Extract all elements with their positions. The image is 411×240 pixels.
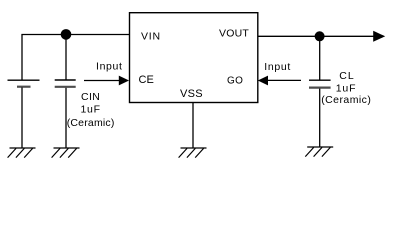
battery BT1 negative plate bbox=[17, 86, 31, 88]
ground (VSS) bbox=[179, 148, 207, 158]
svg-text:CL: CL bbox=[339, 70, 354, 82]
svg-text:VSS: VSS bbox=[180, 88, 203, 100]
svg-text:GO: GO bbox=[227, 76, 243, 87]
arrowhead output bbox=[373, 31, 385, 42]
svg-text:CE: CE bbox=[139, 74, 154, 86]
wire: CIN top lead bbox=[65, 35, 67, 80]
battery BT1 positive plate bbox=[8, 79, 40, 81]
capacitor CIN top plate bbox=[55, 79, 76, 81]
capacitor CL bottom plate bbox=[309, 86, 331, 88]
wire: CIN bottom lead bbox=[65, 88, 67, 148]
arrowhead into GO pin bbox=[258, 76, 268, 86]
wire: CE input line bbox=[84, 80, 120, 82]
wire: VOUT output net horizontal bbox=[258, 35, 375, 37]
wire: GO input line bbox=[267, 79, 301, 81]
node: VIN junction dot bbox=[61, 29, 72, 40]
wire: VSS lead bbox=[192, 103, 194, 149]
IC body U1 bbox=[130, 13, 258, 103]
wire: CL top lead bbox=[319, 36, 321, 80]
wire: CL bottom lead bbox=[319, 89, 321, 147]
wire: battery top lead vertical bbox=[21, 35, 23, 81]
node: VOUT junction dot bbox=[315, 31, 325, 41]
svg-text:Input: Input bbox=[264, 61, 291, 73]
svg-text:1uF: 1uF bbox=[336, 82, 357, 94]
wire: battery bottom lead bbox=[21, 88, 23, 149]
svg-text:Input: Input bbox=[96, 60, 123, 72]
svg-text:CIN: CIN bbox=[81, 91, 100, 103]
ground (CL) bbox=[305, 147, 333, 157]
arrowhead into CE pin bbox=[119, 76, 129, 86]
capacitor CL top plate bbox=[309, 79, 331, 81]
svg-text:1uF: 1uF bbox=[81, 103, 101, 115]
svg-text:(Ceramic): (Ceramic) bbox=[67, 117, 115, 129]
ground (CIN) bbox=[52, 148, 80, 158]
ground (battery) bbox=[8, 148, 36, 158]
svg-text:VOUT: VOUT bbox=[219, 27, 249, 39]
svg-text:VIN: VIN bbox=[141, 31, 161, 43]
wire: VIN input net horizontal bbox=[21, 34, 129, 36]
capacitor CIN bottom plate bbox=[55, 86, 76, 88]
svg-text:(Ceramic): (Ceramic) bbox=[321, 94, 371, 106]
